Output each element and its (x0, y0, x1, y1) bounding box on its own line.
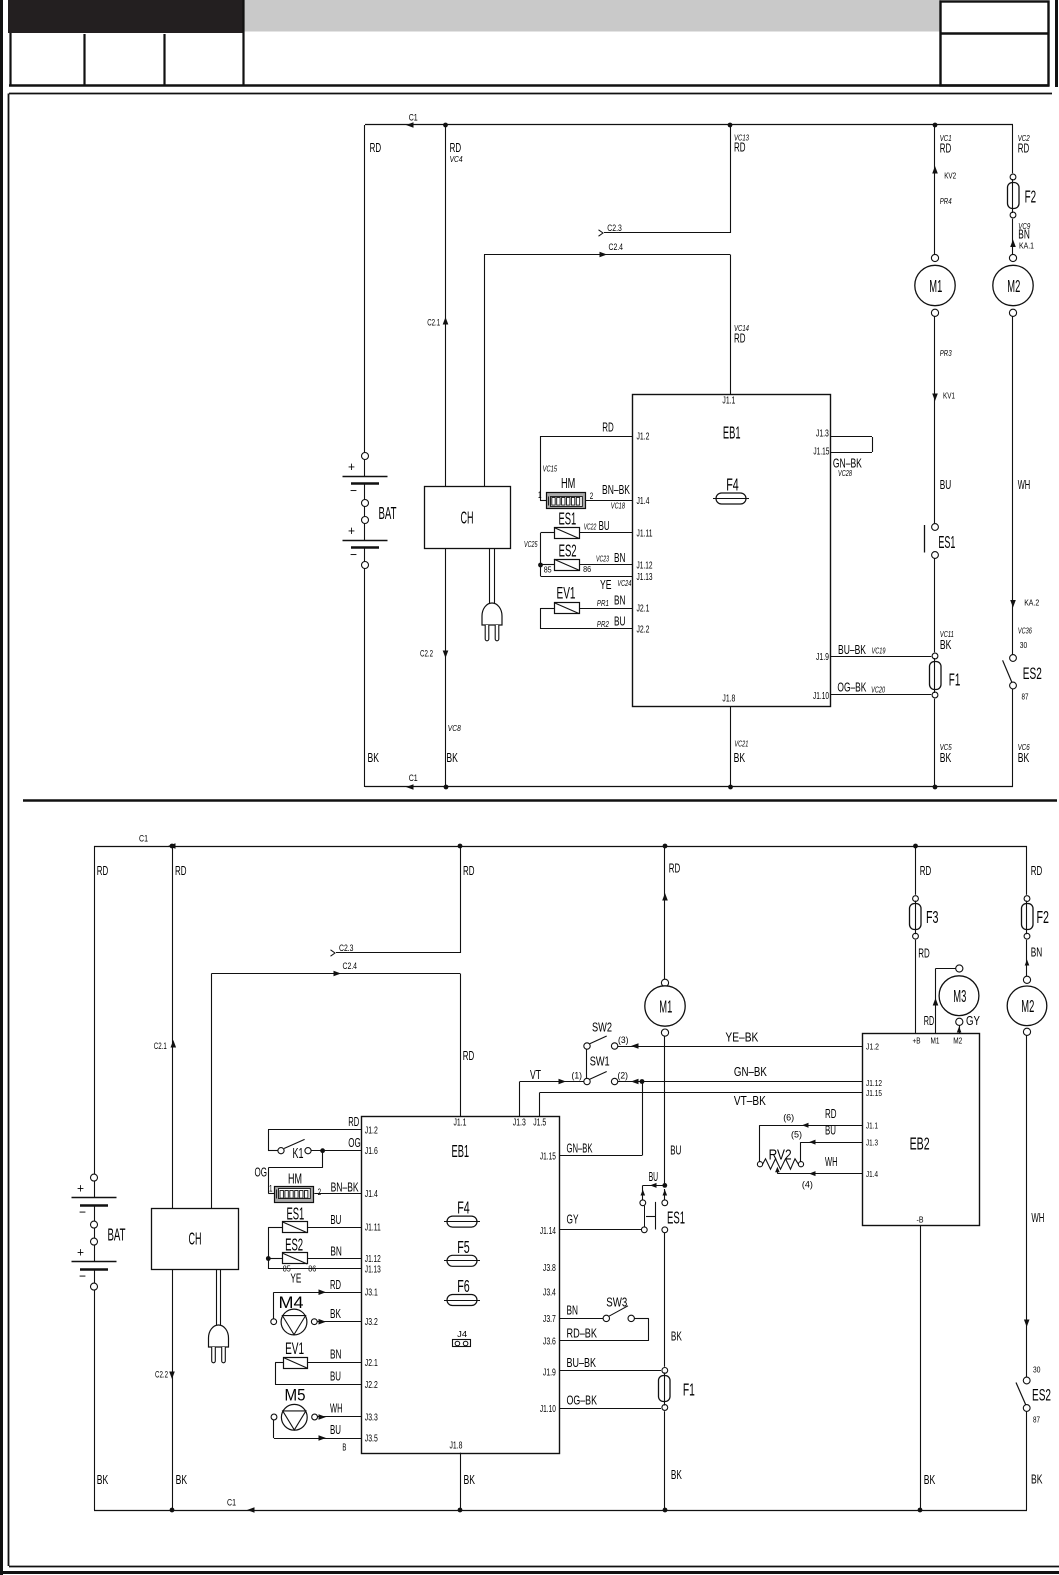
charger CH (top panel) (425, 487, 511, 549)
node: bus junction J1.1 column (458, 844, 463, 849)
wire: bus down to C2.3 (bottom) (460, 846, 462, 953)
wire: WH from M2 down to ES2 (bottom) (1026, 1035, 1028, 1377)
svg-text:BU–BK: BU–BK (567, 1355, 597, 1370)
wire VT-BK to EB2 J1.15 (540, 1092, 862, 1094)
svg-text:BK: BK (940, 750, 952, 765)
svg-text:RD: RD (940, 141, 952, 156)
svg-text:RD: RD (924, 1013, 935, 1028)
wire C2.4 link line (bottom) (212, 973, 461, 975)
relay coil ES1 (bottom panel) (283, 1222, 308, 1233)
motor M1 (top panel) (931, 254, 938, 261)
svg-text:RD: RD (734, 331, 746, 346)
wire: RD down to EB1 J1.1 (bottom) (460, 974, 462, 1117)
svg-text:BN: BN (567, 1303, 579, 1318)
node: ground junction F1 column (933, 785, 938, 790)
wire C2.1: bus down to charger CH (445, 125, 447, 486)
wire: BN from F2 to M2 (1026, 940, 1028, 976)
svg-text:+: + (77, 1181, 84, 1196)
svg-text:−: − (79, 1269, 86, 1284)
wire: GN-BK branch down to EB1 J1.15 (642, 1082, 644, 1156)
svg-text:M3: M3 (953, 986, 966, 1006)
wire: VC5 BK to ground bus (934, 699, 936, 787)
svg-text:J2.1: J2.1 (365, 1358, 378, 1369)
arrow KA.1 (1010, 240, 1016, 248)
wire: battery to ground bus (bottom) (94, 1290, 96, 1510)
svg-text:EB1: EB1 (452, 1141, 470, 1161)
svg-text:J1.4: J1.4 (866, 1169, 878, 1179)
svg-text:BU: BU (330, 1369, 341, 1384)
svg-text:VC23: VC23 (596, 554, 609, 564)
svg-text:GN–BK: GN–BK (567, 1141, 593, 1156)
wire: VT from J1.3 to SW1 (519, 1082, 521, 1117)
arrow C2.2 (443, 651, 449, 659)
motor M2 (top panel) (1009, 254, 1016, 261)
wire: BN-BK to J1.4 (586, 500, 632, 502)
wire: PR2 BU to J2.2 (541, 628, 633, 630)
wire: VC13 from bus down to C2.3 (730, 125, 732, 233)
wire: BN to J1.12 (579, 564, 632, 566)
svg-text:J1.6: J1.6 (365, 1146, 378, 1157)
wire: VC11 BK to F1 (934, 558, 936, 652)
svg-text:−: − (350, 483, 357, 498)
svg-text:J1.11: J1.11 (365, 1223, 381, 1234)
svg-text:RD: RD (330, 1277, 341, 1292)
arrow C2.1 (443, 317, 449, 325)
svg-text:HM: HM (561, 476, 575, 492)
svg-text:BK: BK (176, 1472, 188, 1487)
switch SW2 (584, 1043, 590, 1049)
wire: ground bus (bottom panel) (94, 1510, 1027, 1512)
svg-text:F2: F2 (1025, 187, 1037, 207)
svg-text:J1.4: J1.4 (637, 496, 650, 507)
svg-text:BN: BN (330, 1347, 342, 1362)
wire: M3 bottom GY to EB2 M2 pin (959, 1025, 961, 1033)
svg-text:KA.1: KA.1 (1019, 241, 1034, 251)
wire C2.3 link line (bottom) (336, 952, 460, 954)
svg-text:ES1: ES1 (667, 1208, 685, 1228)
svg-text:VT–BK: VT–BK (734, 1093, 766, 1108)
svg-text:B: B (342, 1443, 346, 1454)
svg-text:VC18: VC18 (611, 501, 625, 511)
svg-text:BK: BK (940, 637, 952, 652)
wire: GY from pushbutton to J1.14 (559, 1229, 641, 1231)
svg-text:RD: RD (463, 1048, 475, 1063)
wire: VC6 BK to ground bus (1012, 689, 1014, 787)
svg-text:ES2: ES2 (1023, 665, 1042, 683)
wire: BK to J3.2 (317, 1321, 361, 1323)
svg-text:WH: WH (825, 1154, 838, 1169)
svg-text:(5): (5) (791, 1129, 802, 1140)
wire: top supply bus (bottom panel) (94, 846, 1027, 848)
svg-text:PR4: PR4 (940, 196, 952, 206)
svg-text:BK: BK (734, 750, 746, 765)
svg-text:BAT: BAT (379, 503, 397, 523)
svg-text:F3: F3 (926, 907, 939, 927)
wire: BU-BK J1.9 to F1 (bottom) (559, 1370, 661, 1372)
svg-text:J4: J4 (457, 1329, 467, 1339)
svg-text:J3.1: J3.1 (365, 1288, 378, 1299)
svg-text:EB2: EB2 (910, 1134, 930, 1154)
control unit EB2 (863, 1034, 980, 1226)
wire: BN to J2.1 (bottom) (308, 1362, 362, 1364)
wire C2.4 link line to J1.1 (484, 254, 730, 256)
wire: M1 to ES1 switch (934, 316, 936, 523)
svg-text:CH: CH (461, 508, 474, 528)
svg-text:VT: VT (530, 1067, 541, 1082)
node: GN-BK branch junction (640, 1079, 645, 1084)
svg-text:BK: BK (1018, 750, 1030, 765)
wire: WH (4) J1.4 to RV2 wiper (777, 1173, 862, 1175)
switch ES1 (top panel right) (932, 524, 939, 531)
svg-text:M5: M5 (285, 1386, 306, 1405)
wire: BN-BK to J1.4 (bottom) (314, 1193, 361, 1195)
svg-text:C2.3: C2.3 (339, 943, 354, 954)
svg-text:BK: BK (330, 1306, 341, 1321)
node: ground junction F1 column (663, 1508, 668, 1513)
svg-text:BN–BK: BN–BK (331, 1180, 359, 1195)
node: ES2 left junction (bottom) (266, 1256, 271, 1261)
svg-text:+B: +B (913, 1036, 921, 1046)
svg-text:C1: C1 (409, 773, 418, 784)
svg-text:KV2: KV2 (944, 171, 956, 181)
svg-text:RD: RD (1031, 863, 1043, 878)
wire: VC2 bus down to F2 (1012, 125, 1014, 173)
wire: RD (6) J1.1 to RV2 (759, 1125, 862, 1127)
node: ground junction J1.8 column (458, 1508, 463, 1513)
svg-text:30: 30 (1033, 1365, 1041, 1375)
svg-text:F6: F6 (457, 1276, 470, 1296)
svg-text:BN–BK: BN–BK (602, 482, 630, 497)
wire: WH to J3.3 (317, 1416, 361, 1418)
wire: J1.8 to ground bus / VC21 (730, 706, 732, 787)
svg-text:J2.2: J2.2 (365, 1380, 378, 1391)
motor M1 (bottom panel) (661, 979, 668, 986)
svg-text:EV1: EV1 (557, 584, 576, 603)
svg-text:RD: RD (918, 946, 930, 961)
wire: RD bus to F2 (bottom) (1026, 846, 1028, 895)
wire GN-BK from SW1 to EB2 J1.12 (618, 1081, 862, 1083)
svg-text:J1.12: J1.12 (365, 1254, 381, 1265)
svg-text:YE: YE (290, 1271, 301, 1286)
wire: BK from pushbutton down to F1 (bottom) (664, 1233, 666, 1367)
svg-text:J3.3: J3.3 (365, 1413, 378, 1424)
svg-text:85: 85 (544, 565, 552, 575)
svg-text:(6): (6) (783, 1113, 794, 1124)
wire: BU-BK J1.9 to F1 (830, 656, 931, 658)
svg-text:J2.1: J2.1 (637, 604, 650, 615)
svg-text:F4: F4 (457, 1198, 470, 1218)
wire C2.2: CH down to ground bus (bottom) (172, 1269, 174, 1510)
header right box (941, 2, 1049, 86)
svg-text:J1.8: J1.8 (722, 694, 735, 705)
svg-text:F2: F2 (1037, 907, 1050, 927)
svg-text:BU: BU (330, 1422, 341, 1437)
svg-text:C2.4: C2.4 (343, 961, 358, 972)
svg-text:BU: BU (614, 614, 626, 629)
svg-text:J1.13: J1.13 (637, 572, 653, 583)
wire: BU to J2.2 (bottom) (275, 1384, 362, 1386)
wire: RD-BK loop to SW3 (634, 1318, 648, 1320)
battery BAT (top panel) (362, 453, 369, 460)
svg-text:C1: C1 (227, 1498, 236, 1509)
node: bus junction F3 column (913, 844, 918, 849)
svg-text:KA.2: KA.2 (1024, 598, 1039, 608)
svg-text:BU: BU (330, 1212, 341, 1227)
svg-text:+: + (348, 523, 355, 538)
svg-text:OG–BK: OG–BK (567, 1393, 598, 1408)
svg-text:M1: M1 (659, 996, 672, 1016)
fuse F1 (top panel) (932, 653, 938, 659)
svg-text:RD: RD (175, 863, 187, 878)
svg-text:RD: RD (450, 140, 462, 155)
node: bus junction at VC13 column (728, 123, 733, 128)
panel divider line (23, 799, 1057, 802)
fuse F2 (top panel) (1010, 174, 1016, 180)
svg-text:J1.12: J1.12 (637, 561, 653, 572)
svg-text:M2: M2 (1021, 996, 1034, 1016)
node: bus junction at BAT/CH column (443, 123, 448, 128)
battery BAT (bottom panel) (91, 1174, 98, 1181)
wire: VC14 down to EB1 J1.1 (730, 255, 732, 395)
arrow KA.2 (1010, 600, 1016, 608)
wire: second charger feed from C2.4 line (484, 255, 486, 487)
svg-text:J3.5: J3.5 (365, 1434, 378, 1445)
svg-text:RD: RD (463, 863, 475, 878)
svg-text:J3.2: J3.2 (365, 1317, 378, 1328)
svg-text:RD: RD (669, 861, 681, 876)
svg-text:VC24: VC24 (617, 578, 631, 588)
wire: VC9 BN to M2 (1012, 219, 1014, 255)
wire: RD to J3.1 (274, 1292, 362, 1294)
wire: BU to J3.5 (273, 1420, 275, 1439)
svg-text:GY: GY (966, 1013, 980, 1028)
svg-text:BK: BK (446, 750, 458, 765)
svg-text:RD: RD (370, 140, 382, 155)
svg-text:VC36: VC36 (1018, 626, 1032, 636)
svg-text:BK: BK (368, 750, 380, 765)
svg-text:BN: BN (330, 1243, 342, 1258)
wire C2.2: charger CH down to ground bus (445, 548, 447, 787)
wire: RD left drop to battery (364, 125, 366, 453)
wire: J1.3 / J1.15 loop (830, 436, 872, 438)
wire C2.3 link line (604, 232, 730, 234)
svg-text:SW2: SW2 (592, 1020, 612, 1035)
svg-text:RD: RD (825, 1106, 837, 1121)
svg-text:RD: RD (1018, 141, 1029, 156)
svg-text:OG: OG (255, 1165, 268, 1180)
svg-text:BN: BN (614, 550, 626, 565)
svg-text:1: 1 (538, 490, 542, 501)
svg-text:J1.1: J1.1 (722, 396, 735, 407)
valve coil EV1 (bottom panel) (284, 1358, 308, 1369)
svg-text:C2.4: C2.4 (609, 242, 624, 253)
wire: YE to J1.13 (bottom) (268, 1268, 361, 1270)
wire: WH from M2 to ES2 switch (1012, 316, 1014, 654)
svg-text:BU: BU (670, 1143, 681, 1158)
connector C1 arrow (bottom panel bottom) (247, 1507, 255, 1513)
node: bus junction CH column (170, 844, 175, 849)
svg-text:VC19: VC19 (872, 646, 886, 656)
svg-text:C1: C1 (409, 113, 418, 124)
relay coil ES2 (bottom panel) (283, 1253, 308, 1264)
wire: ES2 left leg (541, 564, 555, 566)
svg-text:2: 2 (318, 1187, 322, 1198)
svg-text:BK: BK (671, 1467, 682, 1482)
svg-text:SW1: SW1 (590, 1054, 610, 1069)
svg-text:(2): (2) (618, 1071, 629, 1082)
arrow KV1 (932, 394, 938, 402)
svg-text:J1.10: J1.10 (813, 691, 829, 702)
switch SW1 (584, 1078, 590, 1084)
svg-text:C2.2: C2.2 (155, 1370, 168, 1381)
svg-text:J1.3: J1.3 (816, 428, 829, 439)
svg-text:J1.1: J1.1 (454, 1118, 467, 1129)
svg-text:ES1: ES1 (287, 1204, 305, 1224)
svg-text:K1: K1 (293, 1145, 304, 1162)
motor M2 (bottom panel) (1023, 976, 1030, 983)
wire: EB2 -B to ground bus (920, 1225, 922, 1510)
svg-text:BK: BK (671, 1329, 682, 1344)
wire C2.1: bus down to charger CH (bottom) (172, 846, 174, 1208)
svg-text:C2.3: C2.3 (607, 223, 622, 234)
svg-text:J1.13: J1.13 (365, 1265, 381, 1276)
svg-text:+: + (77, 1245, 84, 1260)
svg-text:RD: RD (97, 863, 109, 878)
svg-text:J1.12: J1.12 (866, 1078, 882, 1088)
node: bus junction M1 column (663, 844, 668, 849)
svg-text:-B: -B (917, 1215, 924, 1225)
fuse F6 inside EB1 (447, 1295, 477, 1306)
svg-text:J1.3: J1.3 (513, 1118, 526, 1129)
svg-text:J1.2: J1.2 (637, 432, 650, 443)
svg-text:BU: BU (649, 1169, 659, 1184)
wire: second charger feed from C2.4 (bottom) (211, 974, 213, 1209)
svg-text:J3.8: J3.8 (543, 1263, 556, 1274)
svg-text:VC4: VC4 (450, 154, 463, 164)
control unit EB1 (bottom panel) (362, 1117, 560, 1454)
node: ground junction CH column (170, 1508, 175, 1513)
wire: YE to J1.13 (541, 576, 633, 578)
svg-text:C1: C1 (139, 834, 148, 845)
svg-text:ES1: ES1 (938, 532, 955, 552)
wire: PR1 BN to J2.1 (579, 608, 632, 610)
arrow C2.1 (bottom) (171, 1040, 177, 1048)
relay coil ES1 (top panel) (555, 528, 580, 539)
arrow C2.2 (bottom) (169, 1372, 175, 1380)
wire: BK from F1 to ground bus (bottom) (664, 1411, 666, 1510)
wire: OG-BK J1.10 to F1 (830, 694, 931, 696)
svg-text:87: 87 (1033, 1415, 1040, 1425)
valve coil EV1 (top panel) (555, 603, 580, 614)
svg-text:BN: BN (1031, 945, 1043, 960)
node: ground junction CH column (444, 785, 449, 790)
svg-text:J1.3: J1.3 (866, 1138, 878, 1148)
svg-text:BU–BK: BU–BK (838, 642, 866, 657)
svg-text:RD: RD (348, 1114, 359, 1129)
svg-text:−: − (350, 547, 357, 562)
svg-text:M1: M1 (929, 276, 942, 296)
fuse F3 (913, 896, 919, 902)
wire: RD from F3 to EB2 +B (915, 940, 917, 1034)
node: K1 output junction (320, 1148, 325, 1153)
svg-text:VC25: VC25 (524, 539, 538, 549)
relay coil ES2 (top panel) (555, 560, 580, 571)
svg-text:J3.7: J3.7 (543, 1314, 556, 1325)
fuse F4 inside EB1 (bottom) (447, 1216, 477, 1227)
switch ES2 (top panel right) (1010, 655, 1017, 662)
wire: RD bus to F3 (915, 846, 917, 895)
svg-text:ES1: ES1 (559, 509, 577, 529)
svg-text:BN: BN (1018, 227, 1030, 242)
svg-text:J1.14: J1.14 (540, 1226, 556, 1237)
svg-text:VC15: VC15 (543, 464, 558, 474)
node: ground junction J1.8 column (728, 785, 733, 790)
mains plug of CH (bottom panel) (216, 1269, 218, 1325)
switch ES2 (bottom panel) (1023, 1377, 1030, 1384)
wire: EV1 left leg (bottom) (275, 1362, 283, 1364)
wire: ground bus (top panel) (365, 786, 1013, 788)
control unit EB1 (top panel) (633, 395, 831, 707)
connector C1 arrow (bottom panel top) (168, 843, 176, 849)
svg-text:F1: F1 (683, 1380, 695, 1400)
svg-text:GN–BK: GN–BK (734, 1064, 767, 1079)
svg-text:RD: RD (734, 140, 746, 155)
fuse F1 (bottom panel) (662, 1368, 668, 1374)
hour meter HM (bottom panel) (275, 1187, 314, 1203)
svg-text:EV1: EV1 (285, 1339, 304, 1358)
fuse F5 inside EB1 (447, 1255, 477, 1266)
svg-text:(4): (4) (802, 1180, 813, 1191)
svg-text:(3): (3) (618, 1035, 629, 1046)
svg-text:J3.6: J3.6 (543, 1336, 556, 1347)
svg-text:J1.10: J1.10 (540, 1404, 556, 1415)
wire: ES2 left leg (bottom) (268, 1258, 282, 1260)
svg-text:J1.15: J1.15 (866, 1088, 882, 1098)
relay contact K1 (268, 1129, 362, 1131)
svg-text:J1.8: J1.8 (450, 1441, 463, 1452)
wire: BU from M1 down to ES1 pushbutton (664, 1036, 666, 1185)
motor M3 (956, 965, 963, 972)
svg-text:RV2: RV2 (769, 1148, 792, 1164)
svg-text:+: + (348, 459, 355, 474)
node: ground junction EB2 -B column (918, 1508, 923, 1513)
wire: bus down to M1 (bottom) (664, 846, 666, 979)
node: ES2 left junction (538, 563, 543, 568)
svg-text:WH: WH (330, 1401, 343, 1416)
svg-text:RD: RD (920, 863, 932, 878)
svg-text:YE–BK: YE–BK (725, 1029, 758, 1044)
svg-text:F4: F4 (726, 475, 739, 495)
svg-text:EB1: EB1 (723, 423, 741, 443)
svg-text:J3.4: J3.4 (543, 1288, 556, 1299)
svg-text:PR3: PR3 (940, 348, 952, 358)
svg-text:86: 86 (583, 564, 591, 574)
wire: battery negative to ground bus (364, 569, 366, 788)
svg-text:ES2: ES2 (1032, 1387, 1051, 1405)
svg-text:30: 30 (1020, 640, 1028, 650)
header cell row (9, 84, 1049, 87)
svg-text:CH: CH (189, 1229, 202, 1249)
svg-text:BK: BK (97, 1472, 109, 1487)
hour meter HM (top panel) (547, 493, 586, 509)
wire: EV1 left leg (541, 608, 555, 610)
wire: ES1/ES2 left legs (bottom) (268, 1227, 282, 1229)
svg-text:−: − (79, 1205, 86, 1220)
svg-text:J1.15: J1.15 (813, 447, 829, 458)
wire: BU (5) J1.3 to RV2 (801, 1142, 862, 1144)
svg-text:HM: HM (288, 1172, 302, 1188)
svg-text:VC28: VC28 (838, 468, 852, 478)
